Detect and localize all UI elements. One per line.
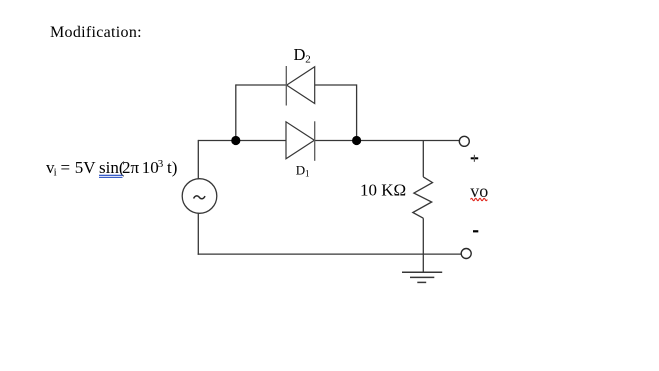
svg-text:Modification:: Modification: xyxy=(50,24,142,41)
ground bar 3 xyxy=(417,281,426,283)
svg-text:D: D xyxy=(296,163,305,178)
grammar-check blue double underline under "sin(" xyxy=(99,175,123,178)
diode D2 cathode bar xyxy=(285,66,287,106)
AC source V1 xyxy=(182,179,217,214)
svg-text:i: i xyxy=(54,167,57,179)
terminal circle bottom (- output) xyxy=(461,249,471,259)
wire: main top wire right segment xyxy=(315,140,460,142)
svg-text:sin(: sin( xyxy=(99,158,125,177)
svg-text:=: = xyxy=(61,158,71,177)
svg-text:2π: 2π xyxy=(122,158,140,177)
svg-text:5V: 5V xyxy=(75,158,97,177)
source label vi = 5V sin(2pi 10^3 t) xyxy=(46,158,177,179)
svg-text:t): t) xyxy=(167,158,177,177)
wire: left branch vertical (source top) xyxy=(197,140,199,179)
plus sign xyxy=(471,155,479,162)
svg-text:1: 1 xyxy=(305,168,310,178)
label D1 xyxy=(296,163,310,179)
label D2 xyxy=(294,45,311,66)
wire: main top wire left segment xyxy=(198,140,286,142)
svg-text:10: 10 xyxy=(142,158,159,177)
wire: resistor branch bottom vertical down to ground xyxy=(422,218,424,272)
wire: left branch vertical (source bottom) xyxy=(197,213,199,255)
wire: D2 branch top-left horizontal xyxy=(236,84,286,86)
svg-text:vo: vo xyxy=(470,181,488,201)
ground bar 1 xyxy=(402,271,442,273)
wire: D2 branch right vertical xyxy=(356,84,358,140)
svg-text:2: 2 xyxy=(305,53,311,65)
svg-text:D: D xyxy=(294,45,306,64)
diode D2 (pointing left) triangle xyxy=(287,67,315,104)
tilde inside source xyxy=(194,196,205,199)
wire: D2 branch top-right horizontal xyxy=(315,84,357,86)
resistor R1 zigzag xyxy=(413,177,433,218)
wire: resistor branch top vertical xyxy=(422,141,424,177)
terminal circle top (+ output) xyxy=(459,136,469,146)
diode D1 (pointing right) triangle xyxy=(286,122,314,159)
wire: bottom wire xyxy=(198,253,462,255)
junction node left xyxy=(231,136,240,145)
junction node right xyxy=(352,136,361,145)
spellcheck red squiggle under vo xyxy=(471,198,488,200)
ground bar 2 xyxy=(410,276,434,278)
svg-text:10 KΩ: 10 KΩ xyxy=(360,181,406,200)
minus sign xyxy=(473,230,478,232)
svg-text:3: 3 xyxy=(158,158,164,170)
diode D1 cathode bar xyxy=(314,121,316,161)
wire: D2 branch left vertical xyxy=(235,84,237,140)
